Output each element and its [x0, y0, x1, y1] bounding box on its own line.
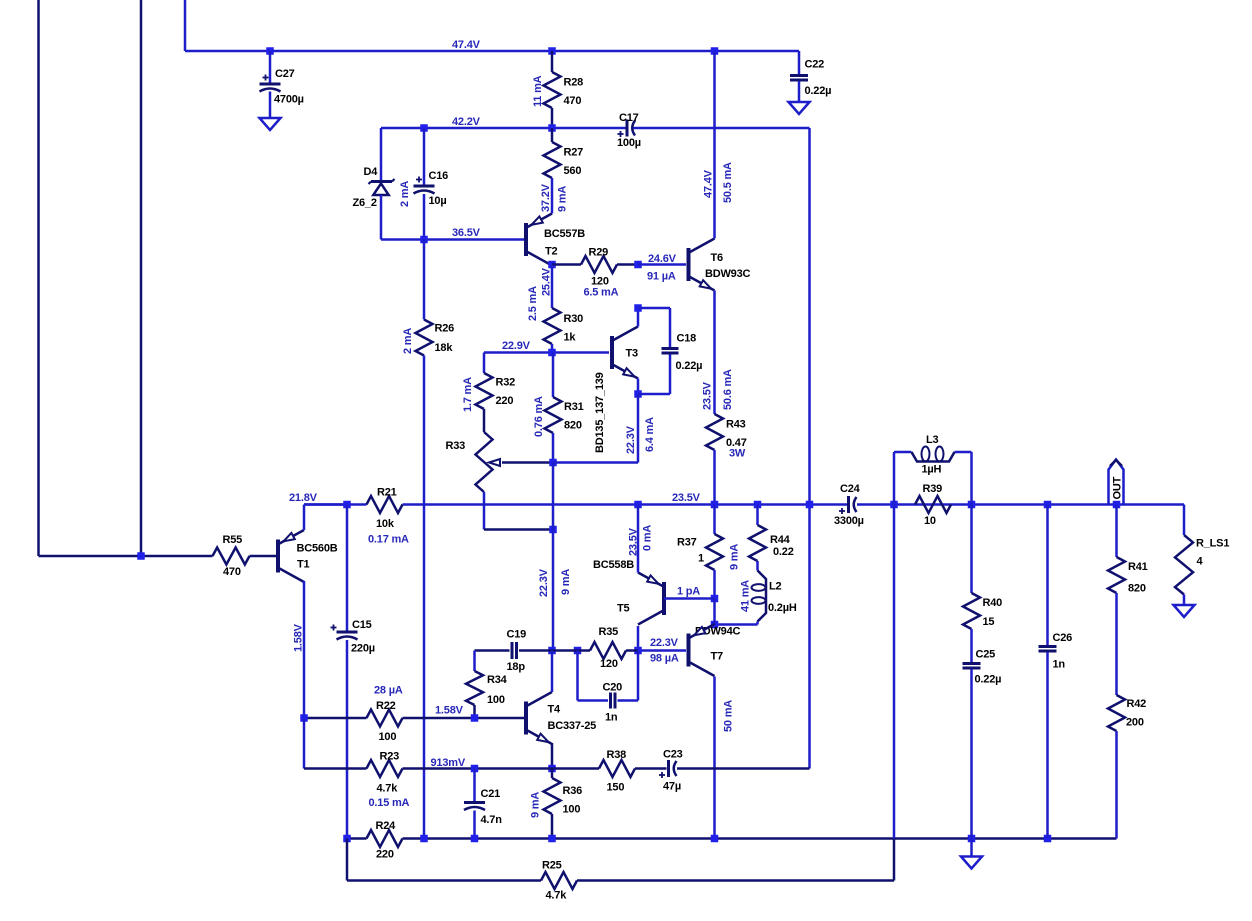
svg-text:T1: T1 — [297, 559, 310, 571]
svg-text:1 pA: 1 pA — [677, 586, 700, 598]
svg-text:Z6_2: Z6_2 — [353, 197, 377, 209]
wire T6 collector — [713, 51, 716, 239]
svg-text:R32: R32 — [496, 377, 516, 389]
svg-text:24.6V: 24.6V — [648, 253, 677, 265]
ground C22 — [789, 102, 810, 114]
label 23.5V rail — [672, 492, 701, 504]
svg-text:C17: C17 — [619, 112, 639, 124]
svg-text:37.2V: 37.2V — [540, 183, 552, 212]
svg-text:0 mA: 0 mA — [642, 525, 654, 551]
wire T3e to R33 wire — [553, 394, 638, 463]
label 11 mA vertical — [532, 75, 544, 107]
svg-text:R33: R33 — [446, 440, 466, 452]
node rail3-C16 — [420, 236, 428, 244]
node rail-x638 — [634, 501, 642, 509]
label 21.8V — [289, 492, 318, 504]
svg-text:BD135_137_139: BD135_137_139 — [594, 372, 606, 453]
svg-text:47.4V: 47.4V — [452, 39, 481, 51]
wire C23 to bootstrap — [677, 767, 810, 770]
svg-text:9 mA: 9 mA — [557, 186, 569, 212]
svg-text:0.22µ: 0.22µ — [805, 85, 832, 97]
svg-text:1n: 1n — [1053, 659, 1066, 671]
svg-text:6.4 mA: 6.4 mA — [644, 417, 656, 452]
transistor T4 BC337-25 — [526, 692, 596, 744]
wire T6 base — [638, 263, 686, 266]
svg-text:D4: D4 — [364, 166, 379, 178]
wire output rail — [304, 503, 1184, 506]
wire bootstrap bus — [808, 128, 811, 769]
node C20 left junction — [574, 647, 582, 655]
capacitor C26 — [1039, 505, 1073, 839]
svg-text:47µ: 47µ — [663, 781, 681, 793]
node rail4-R30 — [548, 349, 556, 357]
svg-text:4.7n: 4.7n — [481, 814, 503, 826]
svg-text:6.5 mA: 6.5 mA — [584, 287, 619, 299]
node T7 emitter junction — [711, 621, 719, 629]
label 42.2V — [452, 116, 481, 128]
wire 47.4V rail — [185, 50, 799, 53]
svg-text:913mV: 913mV — [431, 757, 466, 769]
wire D4 branch top — [380, 128, 383, 183]
node rail-R28 — [548, 47, 556, 55]
label 2.5 mA vertical — [527, 286, 539, 321]
label 9 mA T2 vertical — [557, 186, 569, 212]
label 9 mA R37 vertical — [729, 544, 741, 570]
svg-text:4.7k: 4.7k — [377, 783, 399, 795]
svg-text:C27: C27 — [275, 68, 295, 80]
svg-text:C18: C18 — [677, 333, 697, 345]
svg-text:1µH: 1µH — [922, 464, 942, 476]
svg-text:R42: R42 — [1127, 698, 1147, 710]
svg-text:98 µA: 98 µA — [650, 653, 679, 665]
resistor R39 — [915, 483, 951, 527]
svg-text:100: 100 — [487, 694, 505, 706]
node rail-C15 — [343, 501, 351, 509]
wire T5base-T7emitter — [713, 599, 716, 625]
wire D4 branch bottom — [380, 195, 383, 240]
label 913mV — [431, 757, 466, 769]
svg-text:28 µA: 28 µA — [374, 685, 403, 697]
resistor R40 — [963, 505, 1002, 630]
svg-text:R30: R30 — [564, 313, 584, 325]
label 36.5V — [452, 227, 481, 239]
svg-text:820: 820 — [1128, 583, 1146, 595]
resistor R44 — [749, 505, 794, 562]
node rail-R43 — [711, 501, 719, 509]
svg-text:50 mA: 50 mA — [723, 700, 735, 732]
wire R23 wire — [304, 767, 552, 770]
svg-text:R39: R39 — [923, 483, 943, 495]
wire T7 base — [638, 649, 686, 652]
wire bottom rail — [347, 837, 1117, 840]
svg-text:T5: T5 — [617, 603, 630, 615]
connector OUT — [1109, 460, 1124, 505]
node C19-T4 junction — [548, 647, 556, 655]
node bottom-424 — [420, 835, 428, 843]
capacitor C24 — [834, 483, 864, 527]
svg-text:R24: R24 — [376, 820, 397, 832]
svg-text:100: 100 — [379, 731, 397, 743]
node rail-R44 — [754, 501, 762, 509]
node T5 base junction — [711, 595, 719, 603]
resistor R35 — [578, 626, 639, 670]
wire input column A — [37, 0, 40, 556]
resistor R38 — [599, 749, 635, 794]
label 41 mA vertical — [740, 580, 752, 612]
wire column424 upper — [423, 240, 426, 320]
node bottom-T7 — [711, 835, 719, 843]
node bottom-R36 — [548, 835, 556, 843]
wire T4 base wire — [304, 717, 526, 720]
node T4e junction — [548, 765, 556, 773]
svg-text:BC557B: BC557B — [544, 228, 585, 240]
svg-text:4.7k: 4.7k — [546, 890, 568, 902]
svg-text:L3: L3 — [926, 434, 939, 446]
potentiometer R33 — [446, 409, 554, 492]
svg-text:R21: R21 — [377, 487, 397, 499]
ground C27 — [260, 118, 281, 130]
svg-text:2 mA: 2 mA — [399, 181, 411, 207]
svg-text:470: 470 — [223, 566, 241, 578]
svg-text:21.8V: 21.8V — [289, 492, 318, 504]
node rail-L3left — [890, 501, 898, 509]
svg-text:BC337-25: BC337-25 — [548, 720, 597, 732]
svg-text:22.3V: 22.3V — [538, 568, 550, 597]
svg-text:T7: T7 — [711, 651, 724, 663]
svg-text:22.3V: 22.3V — [625, 425, 637, 454]
svg-text:T2: T2 — [545, 246, 558, 258]
resistor R25 — [541, 860, 577, 902]
svg-text:0.2µH: 0.2µH — [768, 602, 797, 614]
wire L2 bottom — [715, 622, 758, 625]
wire input column B — [140, 0, 143, 556]
svg-text:18p: 18p — [507, 661, 526, 673]
label 0 mA vertical — [642, 525, 654, 551]
label 50.5 mA vertical — [722, 162, 734, 203]
resistor R36 — [544, 769, 583, 839]
svg-text:0.22µ: 0.22µ — [676, 360, 703, 372]
label 1 pA — [677, 586, 700, 598]
label 23.5V T5 vertical — [628, 527, 640, 556]
svg-text:T6: T6 — [711, 252, 724, 264]
resistor R26 — [416, 320, 455, 356]
svg-text:120: 120 — [600, 658, 618, 670]
svg-text:220: 220 — [496, 395, 514, 407]
svg-text:220µ: 220µ — [351, 643, 375, 655]
svg-text:0.15 mA: 0.15 mA — [369, 797, 410, 809]
label 9 mA R36 vertical — [530, 792, 542, 818]
svg-text:0.76 mA: 0.76 mA — [533, 396, 545, 437]
wire T5 emitter — [637, 505, 640, 573]
wire T4 emitter — [551, 743, 554, 769]
svg-text:23.5V: 23.5V — [702, 381, 714, 410]
resistor R41 — [1108, 505, 1148, 595]
svg-text:R25: R25 — [542, 860, 562, 872]
svg-text:23.5V: 23.5V — [672, 492, 701, 504]
node C18 bottom junction — [634, 390, 642, 398]
capacitor C23 — [659, 749, 683, 793]
wire T5 collector — [637, 626, 640, 651]
wire T2c to R30 — [551, 265, 554, 309]
svg-text:R34: R34 — [487, 674, 508, 686]
svg-text:150: 150 — [607, 782, 625, 794]
node R35-T5 junction — [634, 647, 642, 655]
label 50.6 mA vertical — [722, 369, 734, 410]
svg-text:R36: R36 — [563, 785, 583, 797]
transistor T5 BC558B — [593, 559, 664, 625]
node rail-OUT — [1113, 501, 1121, 509]
svg-text:100: 100 — [563, 804, 581, 816]
node R31 bottom junction — [549, 459, 557, 467]
wire R38 to C23 — [635, 767, 667, 770]
svg-text:10: 10 — [924, 515, 936, 527]
node rail-C26 — [1044, 501, 1052, 509]
svg-text:560: 560 — [564, 165, 582, 177]
capacitor C22 — [790, 51, 831, 102]
wire 36.5V rail — [381, 238, 525, 241]
capacitor C17 — [617, 112, 641, 149]
svg-text:R37: R37 — [677, 537, 697, 549]
node input junction — [137, 552, 145, 560]
svg-text:C23: C23 — [663, 749, 683, 761]
svg-text:2 mA: 2 mA — [402, 328, 414, 354]
node R34-T4base junction — [471, 714, 479, 722]
label 9 mA x553 vertical — [560, 569, 572, 595]
svg-text:9 mA: 9 mA — [729, 544, 741, 570]
svg-text:R_LS1: R_LS1 — [1196, 538, 1229, 550]
wire R29 left — [552, 263, 581, 266]
svg-text:1k: 1k — [564, 332, 577, 344]
svg-text:R27: R27 — [564, 147, 584, 159]
svg-text:18k: 18k — [435, 342, 454, 354]
node rail2-C16 — [420, 124, 428, 132]
label 22.3V T7 — [650, 637, 679, 649]
label 25.4V vertical — [541, 267, 553, 296]
svg-text:C22: C22 — [805, 59, 825, 71]
capacitor C15 — [331, 505, 375, 839]
node T1c-R22 junction — [300, 714, 308, 722]
svg-text:R38: R38 — [607, 749, 627, 761]
svg-text:R41: R41 — [1128, 561, 1148, 573]
label 50 mA vertical — [723, 700, 735, 732]
svg-text:R40: R40 — [983, 597, 1003, 609]
svg-text:0.17 mA: 0.17 mA — [368, 534, 409, 546]
node bottom-C21 — [471, 835, 479, 843]
wire R33 bottom — [484, 492, 553, 530]
svg-text:R22: R22 — [376, 700, 396, 712]
transistor T1 BC560B — [278, 530, 338, 582]
svg-text:R44: R44 — [770, 534, 791, 546]
inductor L3 — [894, 434, 972, 505]
label 24.6V — [648, 253, 677, 265]
svg-text:1.58V: 1.58V — [293, 623, 305, 652]
svg-text:L2: L2 — [769, 581, 782, 593]
capacitor C20 loop — [578, 651, 639, 724]
resistor R24 — [367, 820, 403, 861]
diode D4 Z6_2 — [353, 166, 395, 209]
svg-text:10k: 10k — [376, 518, 395, 530]
svg-text:R43: R43 — [726, 419, 746, 431]
svg-text:9 mA: 9 mA — [530, 792, 542, 818]
svg-text:0.22µ: 0.22µ — [975, 674, 1002, 686]
svg-text:11 mA: 11 mA — [532, 75, 544, 107]
node rail-C27 — [266, 47, 274, 55]
transistor T2 BC557B — [526, 214, 585, 266]
svg-text:R31: R31 — [564, 401, 584, 413]
svg-text:4: 4 — [1197, 556, 1204, 568]
label 6.4 mA vertical — [644, 417, 656, 452]
svg-text:25.4V: 25.4V — [541, 267, 553, 296]
wire T1 collector — [303, 581, 306, 718]
svg-text:C26: C26 — [1053, 632, 1073, 644]
node bottom-R40 — [968, 835, 976, 843]
wire column424 lower — [423, 356, 426, 839]
svg-text:1: 1 — [698, 553, 704, 565]
svg-text:470: 470 — [564, 95, 582, 107]
wire R38 segment — [552, 767, 599, 770]
resistor R_LS1 — [1175, 505, 1229, 606]
wire top-left riser — [184, 0, 187, 51]
label 1.58V T4 — [435, 705, 464, 717]
svg-text:100µ: 100µ — [617, 137, 641, 149]
svg-text:1.58V: 1.58V — [435, 705, 464, 717]
svg-text:C24: C24 — [840, 483, 861, 495]
node bottom-C15 — [343, 835, 351, 843]
svg-text:T4: T4 — [548, 704, 562, 716]
label 47.4V — [452, 39, 481, 51]
label 0.15 mA — [369, 797, 410, 809]
capacitor C18 — [638, 308, 702, 394]
label 2 mA R26 vertical — [402, 328, 414, 354]
svg-text:R29: R29 — [589, 247, 609, 259]
svg-text:R55: R55 — [223, 534, 243, 546]
wire 22.9V rail — [484, 351, 609, 354]
label 6.5 mA — [584, 287, 619, 299]
wire input feed horizontal — [39, 555, 213, 558]
svg-text:36.5V: 36.5V — [452, 227, 481, 239]
label 47.4V vertical — [703, 169, 715, 198]
svg-text:C15: C15 — [352, 619, 372, 631]
label 0.76 mA vertical — [533, 396, 545, 437]
label 22.3V x553 vertical — [538, 568, 550, 597]
wire R41-R42 — [1115, 593, 1118, 695]
svg-text:42.2V: 42.2V — [452, 116, 481, 128]
wire R25 to output — [577, 505, 894, 881]
resistor R55 — [213, 534, 277, 578]
capacitor C21 — [464, 769, 502, 839]
svg-text:C21: C21 — [481, 788, 501, 800]
node rail-L3right — [968, 501, 976, 509]
wire R27 to T2 — [551, 178, 554, 214]
svg-text:23.5V: 23.5V — [628, 527, 640, 556]
svg-text:T3: T3 — [626, 348, 639, 360]
node R29-T6 junction — [634, 261, 642, 269]
wire T4 collector — [551, 651, 554, 693]
wire T5 base — [664, 597, 715, 600]
label 2 mA D4 vertical — [399, 181, 411, 207]
wire C19node to C20node — [552, 649, 578, 652]
resistor R31 — [545, 353, 584, 463]
resistor R30 — [544, 308, 584, 344]
resistor R43 — [706, 414, 747, 505]
svg-text:BC558B: BC558B — [593, 559, 634, 571]
svg-text:3300µ: 3300µ — [834, 515, 864, 527]
svg-text:50.6 mA: 50.6 mA — [722, 369, 734, 410]
svg-text:R23: R23 — [380, 751, 400, 763]
label 23.5V T6 vertical — [702, 381, 714, 410]
wire T6 emitter — [713, 291, 716, 415]
ground R_LS1 — [1174, 605, 1195, 617]
node T2 collector junction — [548, 261, 556, 269]
label BD135_137_139 vertical — [594, 372, 606, 453]
resistor R22 — [367, 700, 403, 743]
label 37.2V vertical — [540, 183, 552, 212]
svg-text:C20: C20 — [603, 682, 623, 694]
wire T3 collector — [637, 308, 640, 327]
svg-text:BDW93C: BDW93C — [705, 268, 751, 280]
node rail2-R27 — [548, 124, 556, 132]
svg-text:3W: 3W — [729, 448, 746, 460]
resistor R23 — [367, 751, 403, 795]
resistor R37 — [677, 505, 723, 599]
capacitor C25 — [963, 629, 1002, 839]
svg-text:0.22: 0.22 — [773, 546, 794, 558]
wire T1c down — [303, 718, 306, 769]
svg-text:C25: C25 — [976, 649, 996, 661]
capacitor C16 — [414, 128, 449, 240]
resistor R29 — [581, 247, 617, 288]
capacitor C27 — [260, 51, 304, 118]
label 91 uA — [647, 271, 676, 283]
node C21 junction — [471, 765, 479, 773]
label 22.9V — [502, 340, 531, 352]
svg-text:9 mA: 9 mA — [560, 569, 572, 595]
wire R30 to rail — [551, 344, 554, 353]
svg-text:C19: C19 — [507, 629, 527, 641]
node C18 top junction — [634, 304, 642, 312]
svg-text:15: 15 — [983, 616, 995, 628]
svg-text:41 mA: 41 mA — [740, 580, 752, 612]
svg-text:1.7 mA: 1.7 mA — [462, 377, 474, 412]
svg-text:50.5 mA: 50.5 mA — [722, 162, 734, 203]
svg-text:R35: R35 — [599, 626, 619, 638]
resistor R28 — [544, 51, 584, 128]
svg-text:R26: R26 — [435, 323, 455, 335]
svg-text:OUT: OUT — [1112, 476, 1124, 499]
transistor T6 BDW93C — [689, 239, 751, 291]
svg-text:R28: R28 — [564, 77, 584, 89]
wire C15 to R25 — [347, 839, 541, 881]
resistor R32 — [476, 353, 516, 410]
resistor R21 — [367, 487, 403, 531]
label 28 uA — [374, 685, 403, 697]
label 98 uA — [650, 653, 679, 665]
svg-text:1n: 1n — [605, 712, 618, 724]
wire T1 emitter to rail — [304, 505, 347, 531]
svg-text:22.3V: 22.3V — [650, 637, 679, 649]
label 1.7 mA vertical — [462, 377, 474, 412]
wire T3 emitter — [637, 379, 640, 395]
transistor T7 BDW94C — [689, 624, 741, 676]
svg-text:10µ: 10µ — [429, 195, 447, 207]
svg-text:BC560B: BC560B — [297, 543, 338, 555]
wire T7 collector — [713, 677, 716, 839]
node rail-bootstrap — [806, 501, 814, 509]
label 0.17 mA — [368, 534, 409, 546]
svg-text:2.5 mA: 2.5 mA — [527, 286, 539, 321]
label 1.58V vertical — [293, 623, 305, 652]
wire 42.2V rail — [381, 127, 810, 130]
